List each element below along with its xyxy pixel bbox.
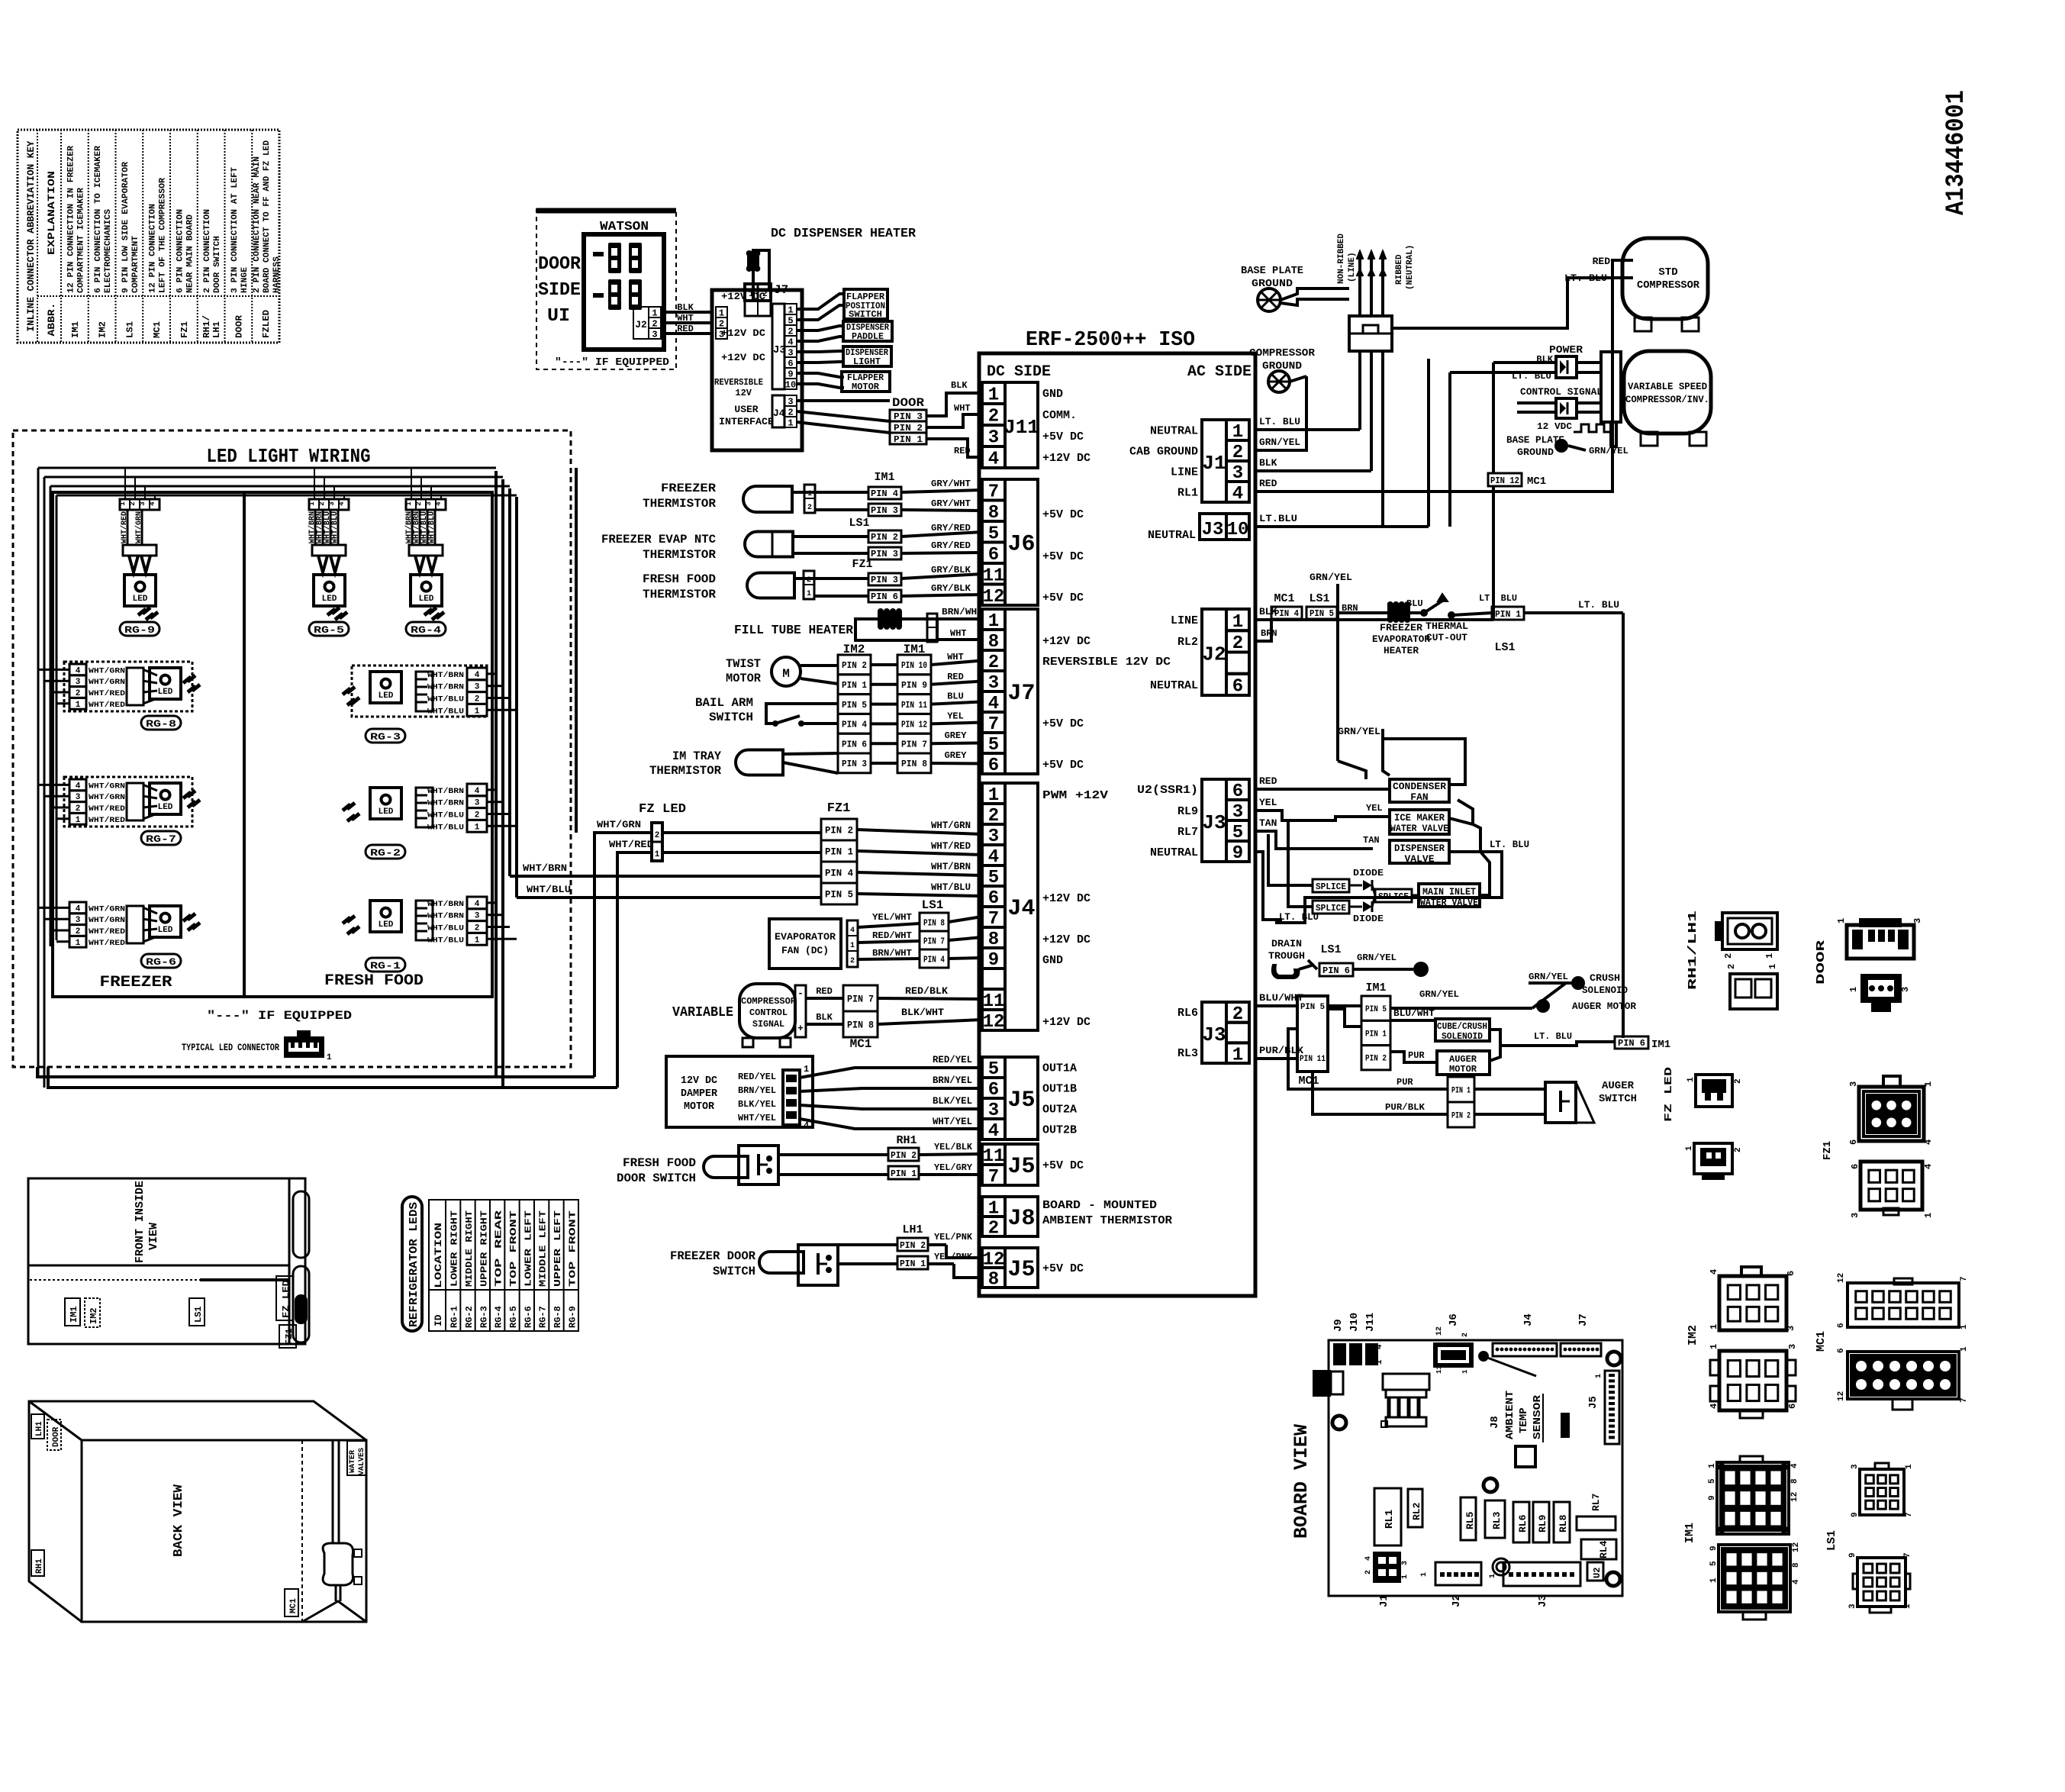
svg-text:DC SIDE: DC SIDE xyxy=(987,363,1051,381)
svg-text:AUGER MOTOR: AUGER MOTOR xyxy=(1572,1001,1636,1012)
svg-text:(NEUTRAL): (NEUTRAL) xyxy=(1406,245,1415,290)
svg-text:RG-3: RG-3 xyxy=(478,1306,489,1328)
svg-text:2: 2 xyxy=(807,504,812,512)
compressor ground xyxy=(1249,347,1316,392)
svg-text:LOCATION: LOCATION xyxy=(433,1223,444,1288)
svg-text:PIN 11: PIN 11 xyxy=(901,700,927,711)
svg-text:RED: RED xyxy=(816,986,833,997)
svg-text:7: 7 xyxy=(988,1167,999,1188)
svg-text:1: 1 xyxy=(1686,1077,1696,1082)
svg-text:PIN 1: PIN 1 xyxy=(825,846,853,858)
svg-text:SWITCH: SWITCH xyxy=(849,309,882,320)
svg-text:8: 8 xyxy=(1792,1562,1801,1568)
svg-text:PIN 7: PIN 7 xyxy=(923,936,945,946)
connector face IM1 plug xyxy=(1708,1456,1799,1534)
svg-text:4: 4 xyxy=(435,501,443,506)
connector face LS1 plug xyxy=(1851,1463,1914,1517)
svg-text:LS1: LS1 xyxy=(1320,943,1341,956)
wires twist motor to IM2 xyxy=(801,666,838,684)
svg-text:EVAPORATOR: EVAPORATOR xyxy=(775,931,836,943)
svg-text:12: 12 xyxy=(1792,1542,1801,1552)
svg-text:LH1: LH1 xyxy=(902,1223,923,1236)
svg-text:RL7: RL7 xyxy=(1590,1494,1602,1511)
svg-text:1: 1 xyxy=(1905,1464,1914,1469)
svg-text:BRN/WHT: BRN/WHT xyxy=(942,607,983,617)
svg-text:FRESH FOOD: FRESH FOOD xyxy=(643,572,716,586)
board connector J3 pin 10 xyxy=(1148,514,1249,542)
svg-text:PIN 9: PIN 9 xyxy=(901,680,927,691)
typical LED connector symbol xyxy=(284,1030,332,1062)
svg-text:SOLENOID: SOLENOID xyxy=(1442,1031,1483,1042)
DC dispenser heater xyxy=(746,227,917,299)
svg-text:PIN 8: PIN 8 xyxy=(901,759,927,769)
svg-text:+5V DC: +5V DC xyxy=(1042,550,1084,563)
svg-text:1: 1 xyxy=(475,936,480,945)
variable compressor control signal xyxy=(672,984,806,1047)
back view DOOR label xyxy=(47,1420,61,1450)
control signal connector to inverter xyxy=(1517,386,1603,418)
board view mounting holes xyxy=(1332,1352,1621,1586)
svg-text:PUR/BLK: PUR/BLK xyxy=(1385,1102,1426,1113)
board view relay RL2 xyxy=(1408,1489,1422,1527)
svg-text:MC1: MC1 xyxy=(850,1037,872,1051)
svg-text:EVAPORATOR: EVAPORATOR xyxy=(1372,633,1430,645)
board connector J3 pins 2 1 xyxy=(1226,1002,1249,1023)
svg-text:YEL/PNK: YEL/PNK xyxy=(934,1232,973,1242)
svg-text:4: 4 xyxy=(988,450,999,470)
svg-text:MC1: MC1 xyxy=(152,321,163,338)
inline connector MC1 PIN5 PIN11 xyxy=(1297,996,1328,1088)
inverter connector block xyxy=(1601,352,1621,422)
svg-text:BLU: BLU xyxy=(1406,598,1423,609)
svg-text:RED: RED xyxy=(954,446,971,456)
user interface pin header 1 2 3 xyxy=(716,307,727,317)
svg-text:RG-9: RG-9 xyxy=(567,1306,578,1328)
svg-text:RG-2: RG-2 xyxy=(464,1306,475,1328)
svg-text:FREEZER: FREEZER xyxy=(1380,622,1422,633)
svg-text:PIN 6: PIN 6 xyxy=(1322,965,1350,976)
inline connector LS1 PIN8 PIN7 PIN4 xyxy=(920,898,949,968)
svg-text:3: 3 xyxy=(475,683,480,692)
LED module RG-3 xyxy=(343,666,487,743)
svg-text:LED: LED xyxy=(419,595,434,604)
svg-text:PIN 8: PIN 8 xyxy=(923,917,945,928)
svg-text:BLU: BLU xyxy=(947,691,964,702)
condenser fan xyxy=(1390,779,1449,803)
svg-text:SPLICE: SPLICE xyxy=(1378,891,1409,902)
svg-text:IM2: IM2 xyxy=(1686,1325,1699,1346)
svg-text:RIBBED: RIBBED xyxy=(1395,254,1404,285)
svg-text:1: 1 xyxy=(1848,987,1859,992)
svg-text:INTERFACE: INTERFACE xyxy=(719,416,774,427)
svg-text:4: 4 xyxy=(988,1121,999,1142)
J8 board mounted ambient thermistor label xyxy=(1042,1199,1172,1227)
svg-text:IM2: IM2 xyxy=(89,1307,99,1324)
svg-text:WHT: WHT xyxy=(677,313,694,324)
svg-text:3: 3 xyxy=(475,912,480,921)
svg-text:PIN 5: PIN 5 xyxy=(842,700,867,711)
svg-text:PIN 4: PIN 4 xyxy=(842,720,867,730)
svg-text:J5: J5 xyxy=(1007,1088,1035,1114)
svg-text:FZ LED: FZ LED xyxy=(1663,1067,1675,1122)
power cord plug xyxy=(1337,234,1415,351)
svg-text:LINE: LINE xyxy=(1171,466,1198,479)
svg-text:PIN 2: PIN 2 xyxy=(900,1240,926,1251)
svg-text:6: 6 xyxy=(988,756,999,776)
svg-text:BLK: BLK xyxy=(677,302,694,313)
svg-text:GND: GND xyxy=(1042,954,1063,967)
svg-text:GRY/WHT: GRY/WHT xyxy=(931,498,971,509)
svg-text:11: 11 xyxy=(1435,1365,1443,1374)
svg-text:12: 12 xyxy=(1435,1326,1444,1336)
svg-text:USER: USER xyxy=(734,404,758,415)
svg-text:MC1: MC1 xyxy=(289,1598,298,1613)
svg-text:LS1: LS1 xyxy=(849,517,869,530)
board view connector J4 xyxy=(1493,1313,1557,1356)
svg-text:COMPRESSOR: COMPRESSOR xyxy=(741,996,797,1007)
wires evap thermistor to J6 pins 5 6 xyxy=(836,523,982,553)
svg-text:2: 2 xyxy=(1461,1333,1470,1337)
splice middle xyxy=(1372,885,1412,907)
twist motor M1 xyxy=(726,657,801,686)
svg-text:RL2: RL2 xyxy=(1177,636,1198,649)
svg-text:+12V DC: +12V DC xyxy=(1042,452,1090,465)
svg-text:DOOR: DOOR xyxy=(1815,940,1828,985)
svg-text:RG-8: RG-8 xyxy=(552,1306,563,1328)
svg-text:OUT1A: OUT1A xyxy=(1042,1062,1077,1075)
svg-text:J6: J6 xyxy=(1007,532,1035,558)
svg-text:NEAR MAIN BOARD: NEAR MAIN BOARD xyxy=(185,214,195,293)
svg-text:7: 7 xyxy=(1960,1276,1969,1281)
svg-text:PIN 2: PIN 2 xyxy=(842,660,867,671)
board view relay RL5 xyxy=(1461,1497,1476,1540)
svg-text:WHT/YEL: WHT/YEL xyxy=(738,1113,776,1123)
crush solenoid ground xyxy=(1529,972,1628,996)
J4 pin function labels xyxy=(1042,789,1108,1029)
svg-text:FAN: FAN xyxy=(1410,791,1428,803)
svg-text:BOARD - MOUNTED: BOARD - MOUNTED xyxy=(1042,1199,1157,1212)
svg-text:WHT/GRN: WHT/GRN xyxy=(134,511,143,543)
svg-text:WHT/RED: WHT/RED xyxy=(89,701,125,710)
svg-text:(LINE): (LINE) xyxy=(1348,252,1357,282)
svg-text:PIN 2: PIN 2 xyxy=(871,532,898,543)
svg-text:DRAIN: DRAIN xyxy=(1271,938,1302,949)
svg-text:RL1: RL1 xyxy=(1384,1510,1396,1529)
svg-text:ERF-2500++ ISO: ERF-2500++ ISO xyxy=(1026,329,1195,352)
J7 pin function labels xyxy=(1042,635,1171,772)
door side UI dashed enclosure xyxy=(536,209,676,369)
svg-text:WHT/RED: WHT/RED xyxy=(931,840,971,852)
svg-text:4: 4 xyxy=(475,900,480,909)
svg-text:NEUTRAL: NEUTRAL xyxy=(1150,846,1198,859)
svg-text:4: 4 xyxy=(1923,1164,1934,1169)
svg-text:LH1: LH1 xyxy=(35,1421,44,1436)
LED module RG-1 xyxy=(343,897,487,972)
svg-text:2: 2 xyxy=(475,811,480,820)
inline connector IM1 PIN 6 right xyxy=(1615,1036,1670,1051)
board connector J5 pins 12 8 xyxy=(982,1248,1005,1268)
svg-text:+12V DC: +12V DC xyxy=(1042,933,1090,946)
svg-text:BRN: BRN xyxy=(1261,628,1277,639)
svg-text:RL6: RL6 xyxy=(1177,1007,1198,1020)
svg-text:GRN/YEL: GRN/YEL xyxy=(1259,437,1300,448)
wires MC1 to auger switch pins xyxy=(1288,1029,1448,1114)
svg-text:1: 1 xyxy=(475,707,480,716)
wires fill tube heater to J7 pins 1 8 xyxy=(937,607,983,640)
svg-text:ID: ID xyxy=(433,1314,444,1326)
svg-text:ICE MAKER: ICE MAKER xyxy=(1394,812,1445,823)
svg-text:LED: LED xyxy=(379,691,394,701)
svg-text:GRY/BLK: GRY/BLK xyxy=(931,565,971,575)
board connector J2 xyxy=(1226,609,1249,630)
connector face IM2 plug xyxy=(1709,1267,1796,1331)
svg-text:RG-5: RG-5 xyxy=(314,624,344,636)
fill tube heater xyxy=(734,608,937,640)
svg-text:PIN 2: PIN 2 xyxy=(891,1150,917,1161)
svg-text:WHT/GRN: WHT/GRN xyxy=(89,666,125,675)
svg-text:MC1: MC1 xyxy=(1815,1331,1828,1352)
connector face IM2 receptacle xyxy=(1709,1344,1798,1418)
svg-text:U2(SSR1): U2(SSR1) xyxy=(1137,784,1198,797)
svg-text:PIN 3: PIN 3 xyxy=(871,549,898,559)
inline connector IM2 pin column xyxy=(838,643,871,773)
connector face DOOR plug xyxy=(1836,918,1923,959)
connector face DOOR receptacle xyxy=(1848,974,1911,1012)
wires compressor control to MC1 to J4 pins 11 12 xyxy=(806,985,982,1024)
inline connector LH1 PIN2 PIN1 xyxy=(897,1223,928,1269)
svg-text:GREY: GREY xyxy=(945,750,968,761)
svg-text:9: 9 xyxy=(1232,843,1243,864)
svg-text:RG-6: RG-6 xyxy=(146,956,176,968)
svg-text:LS1: LS1 xyxy=(193,1306,204,1323)
svg-text:MOTOR: MOTOR xyxy=(684,1101,715,1113)
svg-text:2 PIN CONNECTION: 2 PIN CONNECTION xyxy=(203,209,212,293)
svg-text:4: 4 xyxy=(475,787,480,796)
svg-text:J11: J11 xyxy=(1364,1313,1377,1332)
svg-text:WHT: WHT xyxy=(950,628,967,639)
led wiring top bundle xyxy=(38,468,517,499)
led wiring right bundle stubs xyxy=(487,674,517,939)
board connector J5 pins 11 7 xyxy=(982,1144,1005,1165)
svg-text:ELECTROMECHANICS: ELECTROMECHANICS xyxy=(104,209,113,293)
svg-text:EXPLANATION: EXPLANATION xyxy=(46,171,57,255)
wires to splices xyxy=(1268,820,1313,907)
power connector to inverter xyxy=(1450,344,1601,382)
wires fresh food thermistor to J6 pins 11 12 xyxy=(794,565,982,596)
ice maker water valve xyxy=(1390,810,1449,834)
svg-text:-: - xyxy=(797,988,804,999)
svg-text:PIN 1: PIN 1 xyxy=(842,680,867,691)
svg-text:MC1: MC1 xyxy=(1298,1075,1319,1088)
svg-text:+12V DC: +12V DC xyxy=(1042,892,1090,905)
svg-text:5: 5 xyxy=(1709,1561,1719,1566)
svg-text:RED: RED xyxy=(677,324,694,334)
wires IM1 to J7 with colors xyxy=(931,652,982,764)
svg-text:AC SIDE: AC SIDE xyxy=(1187,363,1252,381)
svg-text:+5V DC: +5V DC xyxy=(1042,759,1084,772)
svg-text:6 PIN CONNECTION TO ICEMAKER: 6 PIN CONNECTION TO ICEMAKER xyxy=(94,146,103,293)
svg-text:2: 2 xyxy=(1734,1147,1743,1152)
svg-text:WATER: WATER xyxy=(349,1450,357,1473)
svg-text:DOOR: DOOR xyxy=(234,314,244,338)
svg-text:DOOR: DOOR xyxy=(52,1426,61,1447)
svg-text:LOWER RIGHT: LOWER RIGHT xyxy=(449,1210,460,1287)
svg-text:J5: J5 xyxy=(1587,1396,1599,1409)
connector face FZ1 plug xyxy=(1848,1076,1934,1145)
wire WHT/BRN to FZ1 to J4 pin 5 xyxy=(510,861,982,876)
board view relay RL9 xyxy=(1533,1502,1549,1542)
svg-text:LOWER LEFT: LOWER LEFT xyxy=(523,1210,533,1287)
std compressor xyxy=(1564,238,1708,331)
svg-text:RED: RED xyxy=(1593,256,1611,267)
svg-text:VALVES: VALVES xyxy=(358,1448,366,1475)
svg-text:BRN/WHT: BRN/WHT xyxy=(872,948,912,959)
svg-text:6: 6 xyxy=(1837,1348,1846,1353)
svg-text:4: 4 xyxy=(475,671,480,680)
svg-text:LT. BLU: LT. BLU xyxy=(1259,416,1300,427)
svg-text:1: 1 xyxy=(1489,1574,1497,1578)
svg-text:WHT/BLU: WHT/BLU xyxy=(427,511,437,543)
back view RH1 label xyxy=(31,1550,44,1576)
svg-text:PIN 5: PIN 5 xyxy=(1310,608,1334,619)
wire WHT/GRN FZ LED to FZ1 to J4 pin 3 xyxy=(594,819,982,1077)
board view relay RL6 xyxy=(1513,1502,1529,1542)
wires J1 to power cord xyxy=(1255,351,1383,527)
svg-text:REVERSIBLE 12V DC: REVERSIBLE 12V DC xyxy=(1042,656,1171,669)
svg-text:1: 1 xyxy=(1595,1374,1603,1378)
svg-text:PIN 1: PIN 1 xyxy=(891,1168,917,1179)
wire LT BLU inverter down to IM1 PIN6 xyxy=(1611,422,1623,1038)
svg-text:BRN/YEL: BRN/YEL xyxy=(933,1075,972,1086)
svg-text:7: 7 xyxy=(1905,1512,1914,1517)
svg-text:WHT/GRN: WHT/GRN xyxy=(89,916,125,925)
svg-text:WHT/RED: WHT/RED xyxy=(609,839,653,850)
svg-text:"---" IF EQUIPPED: "---" IF EQUIPPED xyxy=(207,1009,352,1023)
svg-text:RL6: RL6 xyxy=(1517,1514,1529,1533)
inline connector FZ1 PIN3 PIN6 xyxy=(852,558,901,602)
svg-text:3: 3 xyxy=(475,799,480,808)
inline connector LS1 PIN 1 xyxy=(1451,593,1623,654)
svg-text:LED: LED xyxy=(158,688,173,697)
J3b signal labels xyxy=(1177,1007,1198,1060)
svg-text:BLK: BLK xyxy=(816,1012,833,1023)
svg-text:FRONT INSIDE: FRONT INSIDE xyxy=(134,1181,147,1263)
flapper position switch xyxy=(844,289,888,320)
board view connector J1 xyxy=(1364,1552,1409,1607)
svg-text:RL4: RL4 xyxy=(1598,1540,1609,1558)
svg-text:YEL: YEL xyxy=(1259,797,1277,808)
front inside view IM2 label xyxy=(85,1298,100,1327)
svg-text:1: 1 xyxy=(76,939,81,948)
svg-text:RG-7: RG-7 xyxy=(146,833,176,845)
svg-text:RL8: RL8 xyxy=(1558,1514,1569,1533)
svg-text:3: 3 xyxy=(1912,918,1923,923)
svg-text:IM TRAY: IM TRAY xyxy=(672,749,721,763)
svg-text:+12V DC: +12V DC xyxy=(721,291,765,302)
svg-text:CAB GROUND: CAB GROUND xyxy=(1129,446,1198,459)
wires fresh food door switch to J5 pins 11 7 xyxy=(778,1142,982,1175)
svg-text:MC1: MC1 xyxy=(1274,592,1294,605)
svg-text:1: 1 xyxy=(1709,1578,1719,1583)
svg-text:IM1: IM1 xyxy=(1651,1039,1670,1051)
svg-text:12 VDC: 12 VDC xyxy=(1537,421,1572,432)
svg-text:RH1: RH1 xyxy=(35,1558,44,1574)
cube crush solenoid xyxy=(1390,1008,1500,1061)
svg-text:THERMAL: THERMAL xyxy=(1426,620,1468,632)
svg-text:COMPRESSOR: COMPRESSOR xyxy=(1249,347,1316,359)
svg-text:PIN 1: PIN 1 xyxy=(900,1259,926,1269)
svg-text:THERMISTOR: THERMISTOR xyxy=(643,548,716,562)
svg-text:LED: LED xyxy=(158,803,173,812)
svg-text:+12V DC: +12V DC xyxy=(1042,635,1090,648)
svg-text:RG-9: RG-9 xyxy=(124,624,155,636)
svg-text:MC1: MC1 xyxy=(1527,475,1546,488)
svg-text:4: 4 xyxy=(1709,1269,1719,1275)
svg-text:9: 9 xyxy=(1708,1495,1717,1500)
svg-text:2: 2 xyxy=(475,923,480,933)
led harness lower nested wires xyxy=(37,1067,617,1088)
svg-text:NEUTRAL: NEUTRAL xyxy=(1150,425,1198,438)
svg-text:PIN 1: PIN 1 xyxy=(1451,1086,1471,1095)
svg-text:+12V DC: +12V DC xyxy=(1042,1016,1090,1029)
svg-text:WHT: WHT xyxy=(954,403,971,414)
svg-text:TOP FRONT: TOP FRONT xyxy=(567,1210,578,1287)
board view IC U-square xyxy=(1516,1446,1535,1467)
inline connector LS1 PIN 6 xyxy=(1319,943,1429,977)
svg-text:THERMISTOR: THERMISTOR xyxy=(643,588,716,601)
IM tray thermistor xyxy=(649,749,838,778)
svg-text:3: 3 xyxy=(719,329,724,340)
svg-text:2: 2 xyxy=(1723,953,1734,959)
svg-text:GRN/YEL: GRN/YEL xyxy=(1310,572,1352,583)
connector face RH1/LH1 plug xyxy=(1715,913,1777,959)
svg-text:+5V DC: +5V DC xyxy=(1042,430,1084,443)
back view WATER VALVES label xyxy=(347,1441,366,1475)
board view J8 ambient temp sensor label xyxy=(1478,1351,1544,1442)
svg-text:1: 1 xyxy=(1708,1463,1717,1468)
svg-text:2: 2 xyxy=(1364,1570,1373,1574)
inline connector PIN1 PIN2 auger switch xyxy=(1448,1077,1474,1127)
svg-text:VALVE: VALVE xyxy=(1404,853,1434,865)
svg-text:RL1: RL1 xyxy=(1177,487,1198,500)
svg-text:NEUTRAL: NEUTRAL xyxy=(1148,529,1196,542)
svg-text:9: 9 xyxy=(1848,1552,1857,1558)
board connector J3 pins 6 3 5 9 xyxy=(1226,779,1249,800)
LED module RG-5 xyxy=(308,499,349,636)
svg-text:UI: UI xyxy=(547,306,570,327)
connector face RH1/LH1 receptacle xyxy=(1726,964,1778,1009)
svg-text:FAN (DC): FAN (DC) xyxy=(781,945,829,956)
svg-text:PIN 11: PIN 11 xyxy=(1300,1055,1326,1064)
J2 signal labels xyxy=(1150,614,1198,692)
svg-text:1: 1 xyxy=(655,850,660,859)
wires J3a to condenser fan and valves xyxy=(1255,775,1390,920)
svg-text:LS1: LS1 xyxy=(1309,592,1329,605)
svg-text:FZ1: FZ1 xyxy=(852,558,872,571)
board view relay RL4 xyxy=(1581,1539,1616,1559)
svg-text:PIN 8: PIN 8 xyxy=(847,1020,874,1031)
svg-text:CUT-OUT: CUT-OUT xyxy=(1426,632,1467,643)
svg-text:4: 4 xyxy=(1232,484,1243,504)
front inside view FZ1 label xyxy=(279,1325,296,1348)
board connector J4 xyxy=(982,783,1005,804)
thermal cut-out xyxy=(1406,594,1468,643)
svg-text:RG-1: RG-1 xyxy=(370,960,401,972)
svg-text:LED: LED xyxy=(322,595,337,604)
svg-text:BOARD CONNECT TO FF AND FZ LED: BOARD CONNECT TO FF AND FZ LED xyxy=(263,140,272,293)
svg-text:FZ1: FZ1 xyxy=(284,1328,295,1345)
svg-text:4: 4 xyxy=(804,1120,809,1131)
